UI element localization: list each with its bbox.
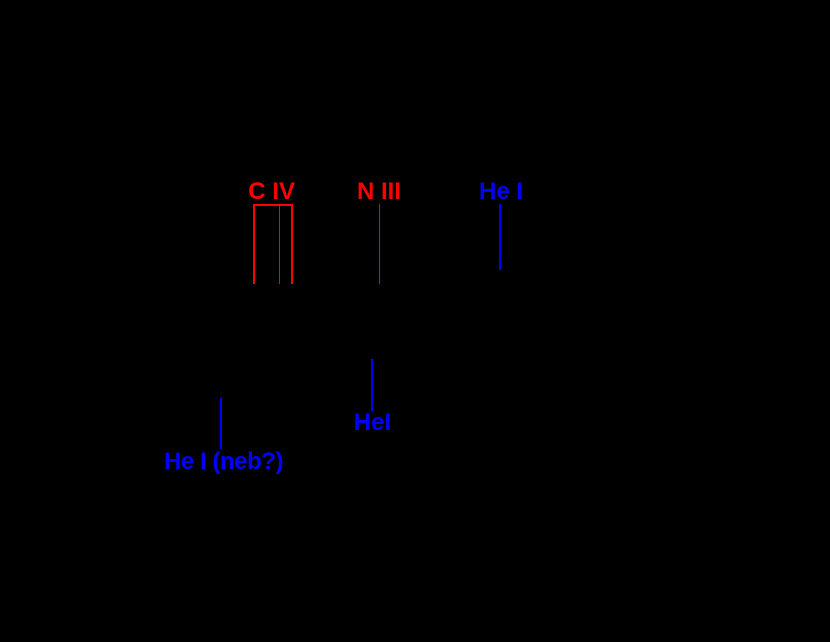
- He I marker line: [499, 204, 501, 271]
- label He I: [479, 180, 523, 204]
- C IV marker line right: [291, 204, 293, 283]
- label He I (neb?): [164, 450, 283, 474]
- He I (neb?) marker line: [220, 398, 222, 449]
- label C IV: [248, 180, 295, 204]
- label HeI: [354, 411, 391, 435]
- N III marker line: [379, 204, 380, 284]
- C IV bracket bar: [253, 204, 292, 206]
- HeI marker line: [371, 359, 373, 411]
- C IV marker line middle: [279, 204, 281, 283]
- C IV marker line left: [253, 204, 255, 283]
- label N III: [357, 180, 401, 204]
